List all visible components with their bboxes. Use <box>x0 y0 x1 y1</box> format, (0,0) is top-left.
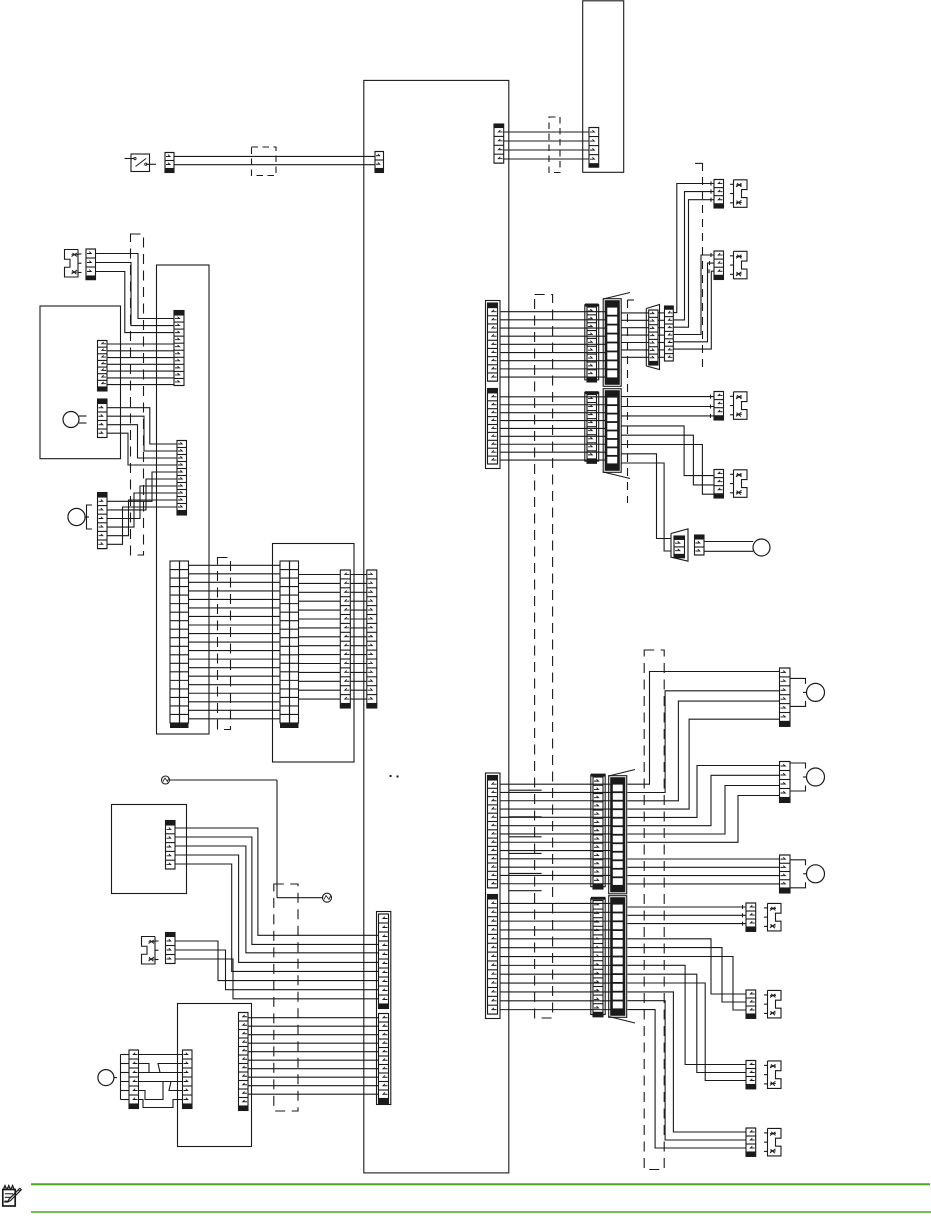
connector J102 (9-pin) <box>488 389 498 465</box>
connector J-PS4 (3-pin) <box>714 470 724 499</box>
motor J-M2 (motor M1) <box>807 768 825 786</box>
connector J-FMT2 (5-pin, formatter) <box>589 128 599 168</box>
harness outline diagonal (upper cluster) <box>603 293 630 479</box>
green rule (upper) <box>31 1183 930 1185</box>
wires to M1 (4 steps) <box>628 766 780 843</box>
connector J601 (9-pin, harness side) <box>585 304 599 382</box>
wire bundle J103 to J611 (13 lines) <box>500 784 612 884</box>
motor J-M1 (fan FM1) <box>807 683 825 701</box>
connector block J103/J104 envelope <box>486 773 501 1019</box>
wire formatter cable (4 lines) <box>504 132 589 159</box>
motor bracket J-M2 (motor M1) <box>790 763 807 791</box>
note icon <box>3 1186 22 1206</box>
connector J-SCNR (7-pin, scanner) <box>98 341 108 391</box>
photosensor J-PS1 <box>730 180 747 208</box>
connector J402 (10-pin) <box>177 441 187 516</box>
connector J607 envelope (slanted) <box>671 529 688 561</box>
wire bundle J424 to J425 (15 lines) <box>299 575 341 700</box>
connector J-PS7 (3-pin) <box>746 1061 756 1089</box>
connector J-M2 (motor M1) <box>780 762 791 803</box>
connector J-L2 (3-pin) <box>166 933 176 964</box>
thermistor TH2 <box>323 893 332 902</box>
wire stubs J425 to J426 (15) <box>350 575 367 700</box>
connector J425 (15-pin) <box>340 570 350 708</box>
connector J401 (10-pin) <box>174 311 184 386</box>
wires to J-PS4 (3 steps) <box>622 426 715 494</box>
connector J-M1 (fan FM1) <box>780 668 791 726</box>
connector J502 (10-pin, controller) <box>379 1014 389 1105</box>
photosensor J-PS2 <box>730 251 747 278</box>
connector J-PS1 (3-pin) <box>714 180 724 209</box>
wires to J-PS2 (3 risers) <box>673 253 714 349</box>
connector J605 envelope (trapezoid) <box>646 305 659 370</box>
wires fuser to J501 (5 steps) <box>175 828 379 971</box>
laser/scanner box (upper left) <box>40 306 121 459</box>
relay connector J603 (upper) <box>603 299 621 387</box>
dashed harness box (bottom left) <box>274 884 298 1111</box>
harness outline diagonal (lower cluster) <box>609 770 635 1024</box>
dashed harness box (right tall) <box>644 650 664 1170</box>
dashed harness box (near formatter cable) <box>549 117 560 173</box>
photosensor J-PS3 <box>730 392 747 420</box>
dashed harness box (middle cluster) <box>218 558 231 730</box>
power switch SW1 <box>125 154 157 172</box>
wires J-A to J402 (4 steps) <box>107 408 177 465</box>
connector J-PWR on controller (2-pin) <box>375 152 384 173</box>
wires to J-PS5 (3 lines) <box>628 905 747 926</box>
connector J-PS8 (3-pin) <box>746 1128 756 1156</box>
connector block J101/J102 envelope (controller right edge) <box>486 301 501 469</box>
motor J-M3 (motor M2) <box>807 865 825 883</box>
photosensor J-PS6 <box>764 990 781 1018</box>
photosensor PS-L2 <box>142 937 159 965</box>
wire bundle pickup to J502 (10 lines) <box>248 1018 379 1094</box>
wires J603 to J605 (7 stubs) <box>622 313 665 357</box>
connector J612 (13-pin) <box>591 897 606 1017</box>
connector J-PS3 (3-pin) <box>714 392 724 421</box>
motor bracket J-M1 (fan FM1) <box>790 678 807 706</box>
connector J-L1 (3-pin) <box>86 249 96 280</box>
pickup board box (bottom left) <box>178 1004 252 1147</box>
wire switch-to-controller (2 lines) <box>174 156 375 164</box>
scanner motor M-SCNR <box>63 412 87 428</box>
relay connector J604 (lower) <box>603 389 621 473</box>
connector J611 (13-pin) <box>591 774 606 889</box>
relay connector J613 (upper) <box>609 776 627 894</box>
wires to clutch connector (2 steps) <box>622 454 672 551</box>
connector J-SW (2-pin) <box>165 153 174 173</box>
driver board box (center) <box>273 544 355 763</box>
wires to J-PS1 (3 risers) <box>673 182 714 328</box>
connector J103 (13-pin) <box>488 776 498 888</box>
dashed harness line (cluster right) <box>628 300 635 503</box>
motor bracket J-M3 (motor M2) <box>790 860 807 888</box>
connector J104 (13-pin) <box>488 895 498 1015</box>
connector J-PS2 (3-pin) <box>714 251 724 280</box>
wire to clutch CL1 <box>704 542 753 552</box>
main motor M1L <box>68 505 92 529</box>
connector J-FMT1 (5-pin, controller) <box>494 124 504 163</box>
engine board box (inner left tall) <box>157 265 210 734</box>
connector pair J421/J422 (19-pin) <box>170 561 189 728</box>
green rule (bottom) <box>31 1211 931 1213</box>
connector J101 (9-pin) <box>488 303 498 381</box>
connector J-FSR (5-pin, fuser) <box>166 821 176 870</box>
connector J426 (15-pin, controller) <box>367 570 377 708</box>
clutch CL1 <box>753 539 770 556</box>
pickup motor M3 <box>98 1055 129 1100</box>
wire bundle J422 to J423 (19 lines) <box>189 565 280 719</box>
connector J607 (2-pin) <box>674 536 685 558</box>
connector J606 (7-pin) <box>665 306 674 361</box>
connector pair J423/J424 (19-pin) <box>280 561 299 728</box>
photosensor J-PS7 <box>764 1061 781 1089</box>
connector J-M3 (motor M2) <box>780 855 791 893</box>
wires to J-PS8 (3 steps) <box>628 992 747 1148</box>
connector J501/J502 envelope <box>377 912 391 1105</box>
connector J605 (7-pin) <box>649 310 658 365</box>
formatter box (top right) <box>583 1 624 173</box>
wires to J-PS6 (3 steps) <box>628 939 747 1010</box>
connector J602 (8-pin, harness side) <box>585 391 599 463</box>
fuser box (lower left) <box>112 805 187 894</box>
wires to FM1 (4 steps) <box>628 672 780 810</box>
wire stubs at controller edge (6) <box>509 790 542 891</box>
connector J-B (6-pin) <box>98 493 108 549</box>
wire weave J-PM1 to J-PM2 <box>139 1055 183 1108</box>
photosensor J-PS4 <box>730 470 747 498</box>
connector J-PS6 (3-pin) <box>746 990 756 1018</box>
wires to J-PS3 (3 lines) <box>622 395 715 418</box>
wire TH1 to TH2 <box>170 780 323 898</box>
connector J501 (10-pin, controller) <box>379 914 389 1009</box>
wire bundle scanner to J401 (7 lines) <box>107 344 174 385</box>
wires J-L1 to J401 (3 steps) <box>96 254 175 333</box>
dashed harness box (top) <box>252 147 277 176</box>
connector J-PM1 (6-pin) <box>129 1050 139 1109</box>
photosensor J-PS8 <box>764 1128 781 1156</box>
connector J-PU (11-pin, pickup) <box>239 1013 249 1111</box>
wires to M2 (4 lines) <box>628 859 780 884</box>
wire bundle J102 to J602 (9 lines) <box>500 397 606 460</box>
wire bundle J101 to J601 (9 lines) <box>500 312 606 377</box>
dashed harness box (central tall) <box>535 295 553 1019</box>
connector J-PM2 (6-pin) <box>183 1050 193 1109</box>
DC controller PCA (large center box) <box>364 80 509 1173</box>
wires J-B to J402 (6 steps) <box>107 472 177 544</box>
connector J-PS5 (3-pin) <box>746 903 756 931</box>
wires to J-PS7 (3 steps) <box>628 965 747 1080</box>
thermistor TH1 <box>162 776 170 784</box>
wire bundle J104 to J612 (13 lines) <box>500 903 612 1009</box>
wires J-L2 to J501 (3 steps) <box>175 941 379 999</box>
dashed harness line (upper right) <box>695 163 703 368</box>
relay connector J614 (lower) <box>609 896 627 1018</box>
connector J-CL (2-pin) <box>695 535 705 555</box>
dashed harness box (left tall) <box>131 234 144 555</box>
photosensor J-PS5 <box>764 903 781 931</box>
photosensor PS-L1 <box>65 250 82 278</box>
junction dots <box>390 775 399 778</box>
connector J-A (4-pin) <box>98 399 108 438</box>
